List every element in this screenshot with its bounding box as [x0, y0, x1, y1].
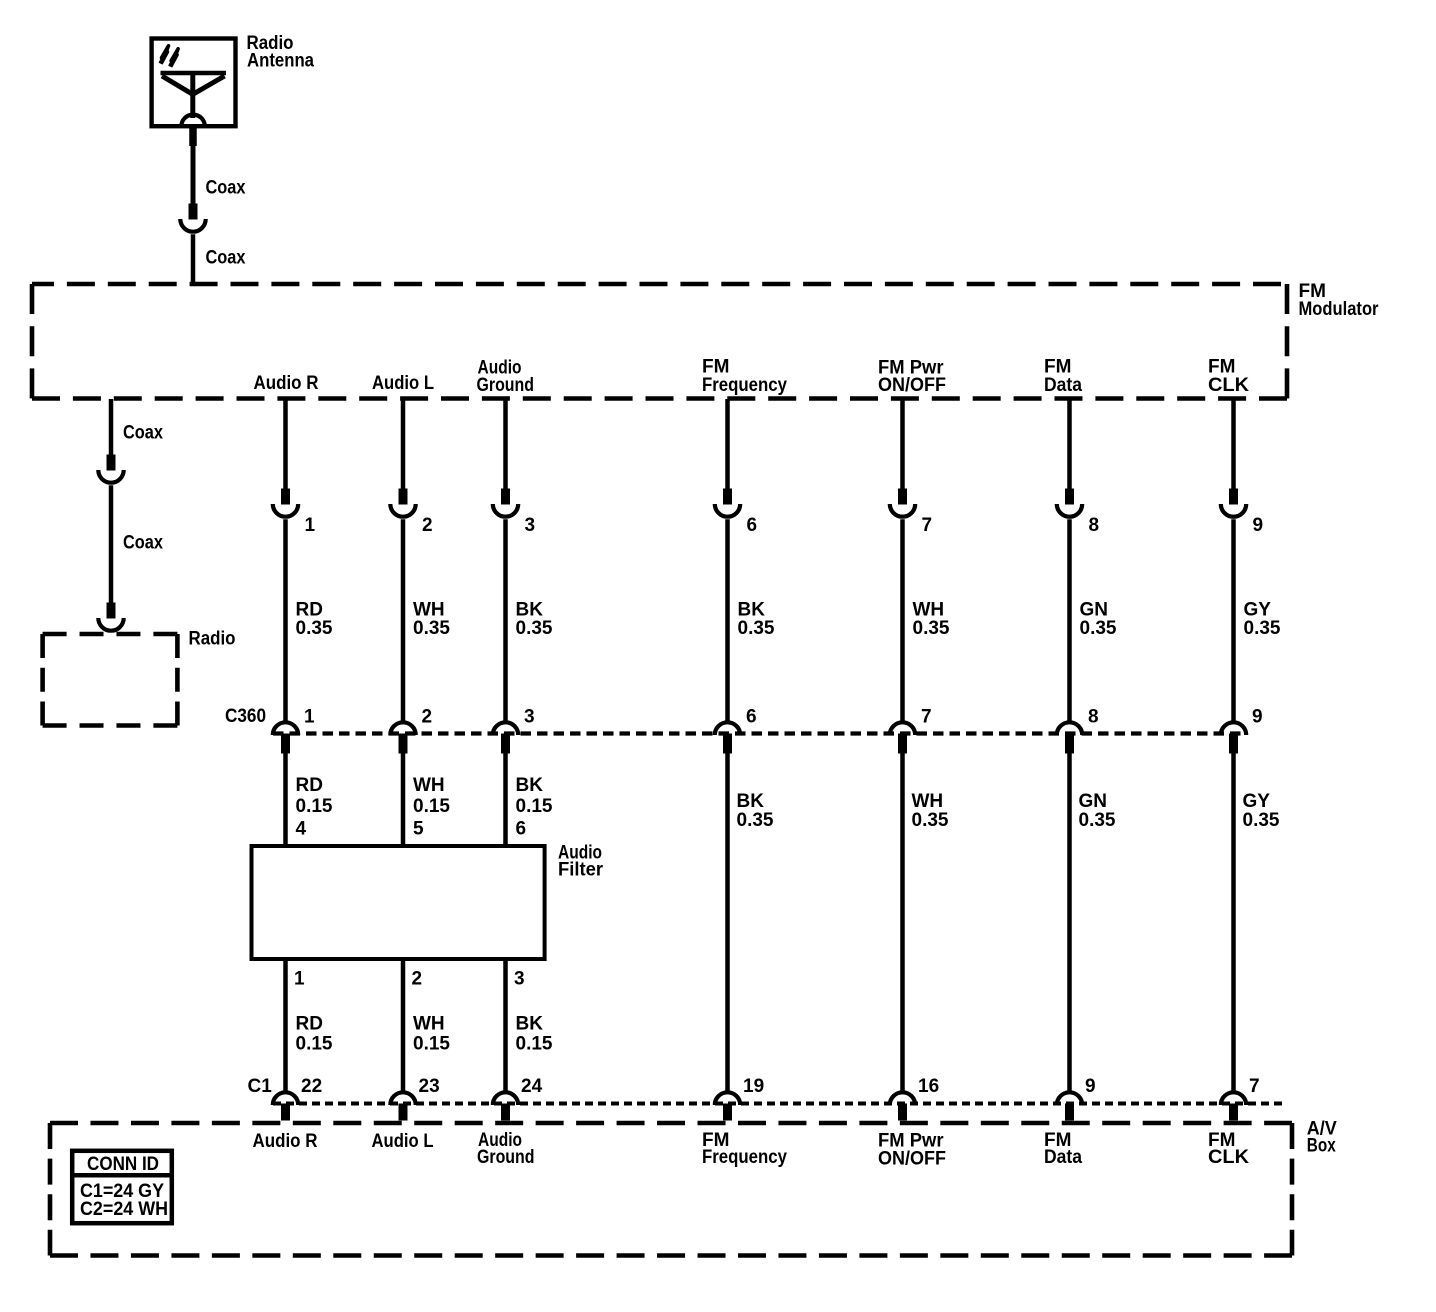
svg-text:7: 7 — [1249, 1076, 1260, 1097]
svg-text:0.15: 0.15 — [516, 1034, 553, 1055]
wire FM Frequency from FM Modulator — [725, 399, 730, 489]
svg-text:4: 4 — [296, 819, 307, 840]
connector pin 2 (Audio L) — [399, 489, 408, 505]
connector C360 pin 9 — [1221, 722, 1246, 735]
svg-text:7: 7 — [922, 515, 933, 536]
svg-text:3: 3 — [524, 707, 535, 728]
svg-text:1: 1 — [304, 707, 315, 728]
wire Audio L from Audio Filter to C1 — [401, 959, 406, 1093]
svg-text:Frequency: Frequency — [702, 1147, 787, 1168]
svg-text:0.35: 0.35 — [1243, 810, 1280, 831]
wire FM Data to C360 — [1067, 519, 1072, 721]
connector C1 dashed line — [273, 1102, 1283, 1106]
wire coax to radio — [109, 485, 114, 603]
svg-text:WH: WH — [413, 1013, 445, 1034]
wire Audio R from FM Modulator — [283, 399, 288, 489]
svg-text:C1: C1 — [248, 1076, 273, 1097]
radio antenna symbol box — [152, 39, 236, 127]
wire FM Pwr ON/OFF from FM Modulator — [900, 399, 905, 489]
FM Modulator dashed box — [32, 284, 1287, 399]
svg-text:0.15: 0.15 — [516, 796, 553, 817]
connector C1 pin 24 (Audio Ground) — [493, 1092, 518, 1105]
svg-text:Coax: Coax — [206, 178, 246, 199]
svg-text:Data: Data — [1044, 375, 1082, 396]
svg-text:0.35: 0.35 — [516, 618, 553, 639]
svg-text:CONN ID: CONN ID — [87, 1154, 159, 1175]
wire coax from FM Modulator — [109, 399, 114, 455]
svg-text:RD: RD — [296, 1013, 323, 1034]
svg-text:6: 6 — [747, 515, 758, 536]
wire Audio Ground to C360 — [503, 519, 508, 721]
wire Audio R from C360 to Audio Filter — [283, 754, 288, 847]
svg-text:Ground: Ground — [477, 375, 535, 396]
wire Audio R to C360 — [283, 519, 288, 721]
svg-text:0.35: 0.35 — [912, 810, 949, 831]
svg-text:Antenna: Antenna — [247, 50, 314, 71]
svg-text:2: 2 — [422, 707, 433, 728]
svg-text:Audio L: Audio L — [372, 373, 434, 394]
connector pin 1 (Audio R) — [281, 489, 290, 505]
svg-text:CLK: CLK — [1208, 1147, 1249, 1168]
svg-text:Coax: Coax — [123, 422, 163, 443]
svg-text:C360: C360 — [225, 706, 266, 727]
svg-text:0.15: 0.15 — [413, 1034, 450, 1055]
connector C1 pin 19 (FM Frequency) — [715, 1092, 740, 1105]
svg-text:GN: GN — [1079, 791, 1108, 812]
svg-text:Audio R: Audio R — [254, 373, 319, 394]
wire FM Pwr ON/OFF to C360 — [900, 519, 905, 721]
connector pin 6 (FM Frequency) — [723, 489, 732, 505]
svg-text:24: 24 — [521, 1076, 543, 1097]
svg-text:0.35: 0.35 — [738, 618, 775, 639]
svg-text:Audio L: Audio L — [372, 1131, 434, 1152]
A/V Box dashed box — [50, 1123, 1292, 1256]
Radio dashed box — [43, 634, 178, 726]
svg-text:Data: Data — [1044, 1147, 1082, 1168]
svg-text:0.35: 0.35 — [1244, 618, 1281, 639]
wire Audio L from C360 to Audio Filter — [401, 754, 406, 847]
wire FM CLK from C360 to C1 — [1231, 754, 1236, 1093]
wire FM Frequency to C360 — [725, 519, 730, 721]
svg-text:19: 19 — [743, 1076, 764, 1097]
connector C360 dashed line — [273, 731, 1246, 735]
wire coax antenna stub — [189, 127, 197, 147]
svg-text:0.35: 0.35 — [1079, 810, 1116, 831]
connector C1 pin 22 (Audio R) — [273, 1092, 298, 1105]
connector pin 7 (FM Pwr ON/OFF) — [898, 489, 907, 505]
svg-text:WH: WH — [912, 791, 944, 812]
svg-text:WH: WH — [413, 775, 445, 796]
svg-text:9: 9 — [1252, 707, 1263, 728]
svg-text:ON/OFF: ON/OFF — [878, 375, 946, 396]
svg-text:0.15: 0.15 — [296, 796, 333, 817]
connector C360 pin 3 — [493, 722, 518, 735]
wire FM Data from FM Modulator — [1067, 399, 1072, 489]
svg-text:0.35: 0.35 — [737, 810, 774, 831]
svg-text:Audio R: Audio R — [253, 1131, 318, 1152]
wire Audio L from FM Modulator — [401, 399, 406, 489]
svg-text:2: 2 — [412, 968, 423, 989]
connector C1 pin 7 (FM CLK) — [1221, 1092, 1246, 1105]
svg-text:BK: BK — [516, 1013, 544, 1034]
svg-text:1: 1 — [305, 515, 316, 536]
svg-text:6: 6 — [746, 707, 757, 728]
connector C360 pin 1 — [273, 722, 298, 735]
connector C360 pin 6 — [715, 722, 740, 735]
svg-text:3: 3 — [525, 515, 536, 536]
coax connector at radio — [107, 603, 116, 619]
svg-text:0.15: 0.15 — [296, 1034, 333, 1055]
svg-text:GY: GY — [1243, 791, 1271, 812]
wire coax upper — [191, 145, 196, 204]
svg-text:3: 3 — [514, 968, 525, 989]
svg-text:22: 22 — [301, 1076, 322, 1097]
svg-text:8: 8 — [1088, 707, 1099, 728]
wire Audio Ground from C360 to Audio Filter — [503, 754, 508, 847]
svg-text:23: 23 — [419, 1076, 440, 1097]
svg-text:Coax: Coax — [123, 532, 163, 553]
wire FM CLK to C360 — [1231, 519, 1236, 721]
svg-text:8: 8 — [1089, 515, 1100, 536]
svg-text:C2=24 WH: C2=24 WH — [80, 1199, 168, 1220]
svg-text:9: 9 — [1253, 515, 1264, 536]
svg-text:0.35: 0.35 — [413, 618, 450, 639]
wire FM Data from C360 to C1 — [1067, 754, 1072, 1093]
svg-text:2: 2 — [422, 515, 433, 536]
connector C1 pin 9 (FM Data) — [1057, 1092, 1082, 1105]
svg-text:Coax: Coax — [206, 247, 246, 268]
svg-text:7: 7 — [921, 707, 932, 728]
svg-text:RD: RD — [296, 775, 323, 796]
svg-text:Filter: Filter — [558, 860, 604, 881]
wire coax lower — [191, 234, 196, 286]
connector C1 pin 23 (Audio L) — [390, 1092, 415, 1105]
coax in-line connector — [189, 204, 198, 220]
svg-text:BK: BK — [737, 791, 765, 812]
svg-text:0.15: 0.15 — [413, 796, 450, 817]
connector C360 pin 7 — [890, 722, 915, 735]
svg-text:0.35: 0.35 — [913, 618, 950, 639]
wire FM Frequency from C360 to C1 — [725, 754, 730, 1093]
connector C1 pin 16 (FM Pwr ON/OFF) — [890, 1092, 915, 1105]
wire Audio L to C360 — [401, 519, 406, 721]
wire FM CLK from FM Modulator — [1231, 399, 1236, 489]
coax connector — [107, 455, 116, 471]
svg-text:6: 6 — [516, 819, 527, 840]
connector pin 8 (FM Data) — [1065, 489, 1074, 505]
antenna element — [161, 71, 227, 76]
svg-text:Modulator: Modulator — [1299, 299, 1380, 320]
svg-text:Radio: Radio — [189, 628, 236, 649]
connector pin 9 (FM CLK) — [1229, 489, 1238, 505]
svg-text:5: 5 — [413, 819, 424, 840]
svg-text:0.35: 0.35 — [296, 618, 333, 639]
CONN ID table — [71, 1151, 173, 1223]
wire Audio Ground from FM Modulator — [503, 399, 508, 489]
svg-text:Box: Box — [1307, 1135, 1336, 1156]
connector pin 3 (Audio Ground) — [501, 489, 510, 505]
svg-text:16: 16 — [918, 1076, 939, 1097]
svg-text:0.35: 0.35 — [1080, 618, 1117, 639]
RF wave marks — [160, 46, 168, 64]
svg-text:ON/OFF: ON/OFF — [878, 1149, 946, 1170]
connector C360 pin 2 — [390, 722, 415, 735]
wire Audio Ground from Audio Filter to C1 — [503, 959, 508, 1093]
svg-text:1: 1 — [294, 968, 305, 989]
wire FM Pwr ON/OFF from C360 to C1 — [900, 754, 905, 1093]
wire Audio R from Audio Filter to C1 — [283, 959, 288, 1093]
svg-text:Ground: Ground — [477, 1147, 535, 1168]
svg-text:CLK: CLK — [1208, 375, 1249, 396]
connector C360 pin 8 — [1057, 722, 1082, 735]
svg-text:Frequency: Frequency — [702, 375, 787, 396]
svg-text:BK: BK — [516, 775, 544, 796]
svg-text:9: 9 — [1085, 1076, 1096, 1097]
Audio Filter box — [252, 846, 545, 959]
